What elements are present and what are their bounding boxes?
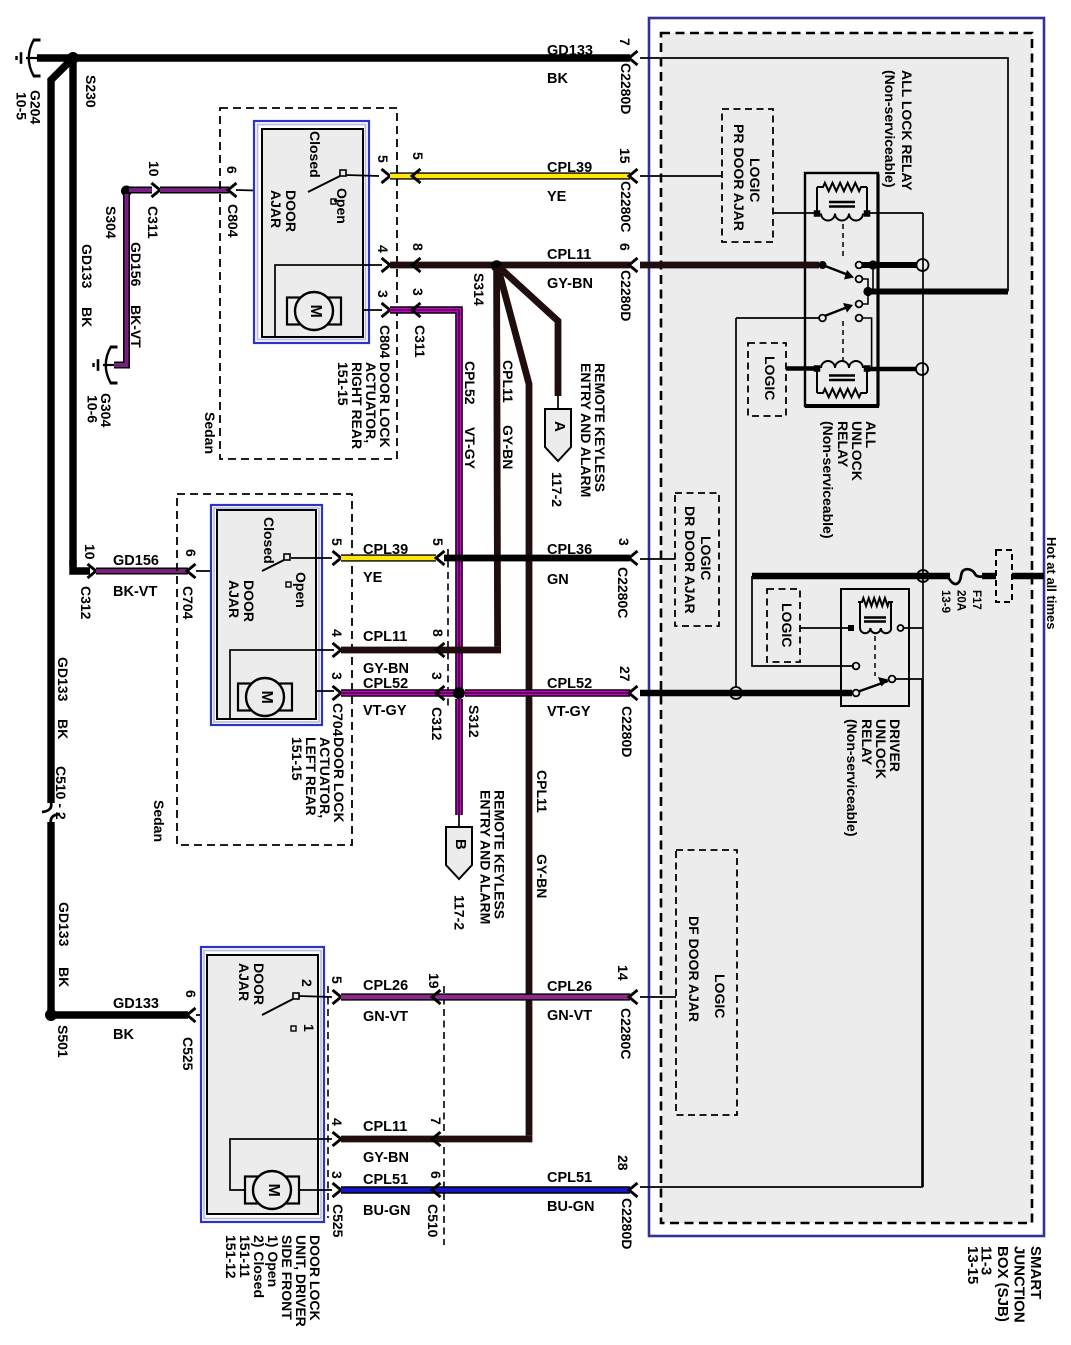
svg-text:DF DOOR AJAR: DF DOOR AJAR [686, 916, 702, 1022]
right-rear sedan boundary (dashed box) [220, 108, 397, 459]
svg-text:DOOR: DOOR [241, 580, 257, 622]
svg-text:S501: S501 [55, 1025, 71, 1058]
svg-text:C2280D: C2280D [619, 1198, 635, 1249]
wire CPL11 GY-BN (C704 to S314 corner) [341, 647, 501, 654]
svg-text:BK: BK [79, 307, 95, 327]
connector C510 pin 7 arrow [432, 1132, 441, 1146]
ground G304 [94, 347, 118, 384]
fuse holder dashed box [996, 550, 1012, 602]
connector C804 pin 6 arrow [228, 183, 237, 197]
svg-text:C2280D: C2280D [618, 63, 634, 114]
motor wiring loop (right rear) [275, 265, 363, 337]
svg-text:YE: YE [547, 189, 567, 205]
svg-text:S314: S314 [471, 273, 487, 306]
wire CPL52 VT-GY (S312 to C2280D) [465, 689, 630, 697]
svg-text:CPL39: CPL39 [547, 160, 592, 176]
connector C804 pin 4 arrow [382, 258, 391, 272]
svg-text:CPL52: CPL52 [547, 676, 592, 692]
svg-text:C2280D: C2280D [618, 270, 634, 321]
motor wiring loop (front) [230, 1139, 332, 1190]
wire GD133 BK vertical branch right (S230 down to C312) [69, 62, 76, 566]
wire GD156 BK-VT (S304 to C311-10) [129, 187, 152, 194]
motor wiring loop (left rear) [230, 650, 316, 719]
connector C704 pin 6 arrow [187, 564, 196, 578]
svg-text:(Non-serviceable): (Non-serviceable) [820, 421, 836, 538]
wire GD156 BK-VT (S304 down to G304) [114, 194, 127, 365]
link all-lock output to ground rail [872, 265, 874, 292]
terminal circle on CPL52 (internal) [730, 687, 742, 699]
svg-text:C525: C525 [180, 1037, 196, 1071]
switch open contact (right rear) [331, 199, 336, 204]
svg-text:CPL52: CPL52 [462, 361, 478, 405]
driver relay common contact [853, 690, 860, 697]
switch open contact (front) [291, 1026, 296, 1031]
switch blade (front) [262, 999, 293, 1015]
all lock relay common contact [819, 261, 827, 269]
LOGIC box (all unlock) [748, 343, 786, 416]
svg-text:GY-BN: GY-BN [363, 1150, 409, 1166]
svg-text:1: 1 [301, 1024, 317, 1032]
wire GD133 BK vertical branch left (S230 down to S501) [51, 61, 70, 803]
all unlock relay common contact [819, 315, 826, 322]
terminal circle (all unlock output) [916, 363, 928, 375]
svg-text:5: 5 [329, 538, 345, 546]
wire to right-rear door-ajar switch [236, 190, 308, 192]
all lock relay coil [816, 187, 818, 213]
wire to front door-ajar switch [196, 1014, 262, 1016]
link NC2 to all-unlock coil output [862, 318, 872, 369]
svg-text:10-5: 10-5 [14, 92, 30, 120]
svg-text:GY-BN: GY-BN [363, 661, 409, 677]
svg-text:A: A [551, 421, 568, 432]
svg-text:GD133: GD133 [56, 902, 72, 947]
wire CPL51 inside SJB [640, 679, 922, 1187]
svg-text:BK-VT: BK-VT [113, 584, 157, 600]
LOGIC DF DOOR AJAR box [676, 850, 737, 1115]
svg-text:C510 - 2: C510 - 2 [53, 766, 69, 820]
all lock relay contact NO [856, 262, 863, 269]
svg-text:C2280C: C2280C [615, 567, 631, 618]
all lock / all unlock relay enclosure [805, 173, 878, 406]
connector C312 pin 10 arrow [88, 564, 97, 578]
SJB internal bus vertical [922, 213, 924, 1187]
svg-text:151-15: 151-15 [335, 362, 351, 406]
svg-text:15: 15 [617, 148, 633, 164]
svg-text:CPL11: CPL11 [547, 247, 591, 263]
driver unlock relay box [841, 589, 909, 706]
svg-text:GD133: GD133 [55, 657, 71, 702]
SJB internal module area (gray dashed box) [661, 33, 1032, 1223]
svg-text:13-9: 13-9 [939, 590, 951, 613]
all lock relay blade [823, 265, 852, 276]
all lock relay output wire [862, 262, 917, 268]
svg-text:4: 4 [329, 629, 345, 637]
svg-text:5: 5 [430, 538, 446, 546]
svg-text:ALL LOCK RELAY: ALL LOCK RELAY [899, 70, 915, 191]
svg-text:CPL11: CPL11 [363, 1119, 407, 1135]
svg-text:14: 14 [615, 965, 631, 981]
svg-text:GY-BN: GY-BN [547, 276, 593, 292]
svg-text:M: M [307, 305, 324, 318]
svg-text:C804: C804 [225, 204, 241, 238]
svg-text:6: 6 [617, 243, 633, 251]
svg-text:151-12: 151-12 [223, 1235, 239, 1279]
svg-text:GN: GN [547, 572, 569, 588]
wire CPL36 into LOGIC DR DOOR AJAR [640, 558, 675, 560]
splice S230 [67, 52, 79, 64]
svg-text:10: 10 [146, 161, 162, 177]
svg-text:10: 10 [82, 544, 98, 560]
fuse F17 element [948, 569, 982, 584]
svg-text:10-6: 10-6 [85, 395, 101, 423]
svg-text:13-15: 13-15 [964, 1246, 981, 1284]
wire LOGIC to all-unlock coil [786, 366, 817, 371]
connector C312 pin 3 arrow [436, 686, 445, 700]
svg-text:LOGIC: LOGIC [762, 356, 778, 400]
svg-text:8: 8 [430, 629, 446, 637]
connector C311 pin 8 arrow [412, 258, 421, 272]
ground G204 [17, 40, 41, 77]
svg-text:5: 5 [329, 976, 345, 984]
svg-text:4: 4 [375, 245, 391, 253]
svg-text:PR DOOR AJAR: PR DOOR AJAR [731, 124, 747, 231]
svg-text:S304: S304 [103, 206, 119, 239]
connector C704 pin 5 arrow [333, 551, 342, 565]
svg-text:5: 5 [375, 155, 391, 163]
svg-text:GD156: GD156 [113, 553, 159, 569]
RKE arrow A [545, 409, 571, 461]
connector C804 pin 3 arrow [382, 303, 391, 317]
wire CPL39 switch to C804-5 [346, 175, 379, 176]
svg-text:GD156: GD156 [128, 242, 144, 287]
wire LOGIC PR to all-lock coil [773, 212, 817, 214]
all unlock relay coil dashed link [842, 321, 844, 362]
connector C525 pin 5 arrow [333, 990, 342, 1004]
wire CPL26 switch to C525-5 [299, 996, 332, 997]
wire LOGIC to driver coil [800, 627, 849, 629]
connector C311 pin 5 arrow [412, 169, 421, 183]
svg-text:BK: BK [113, 1027, 134, 1043]
svg-text:BOX (SJB): BOX (SJB) [994, 1246, 1011, 1322]
driver relay NC stub contact [853, 663, 860, 670]
svg-text:Hot at all times: Hot at all times [1044, 537, 1059, 629]
svg-text:Sedan: Sedan [151, 800, 167, 842]
svg-text:19: 19 [426, 973, 442, 989]
all unlock relay coil [816, 369, 818, 394]
all unlock relay contact NO [856, 301, 863, 308]
svg-text:LOGIC: LOGIC [747, 158, 763, 202]
svg-text:S312: S312 [466, 705, 482, 738]
LOGIC box (driver unlock) [767, 589, 800, 662]
all unlock relay contact NC [856, 315, 863, 322]
door lock unit driver side front (blue box) [201, 947, 324, 1222]
connector C312 pin 5 arrow [436, 551, 445, 565]
wire CPL39 YE (C804 to C2280C) [390, 172, 630, 179]
svg-text:5: 5 [410, 152, 426, 160]
svg-text:3: 3 [616, 538, 632, 546]
wire CPL52 VT-GY (C804 to S312 corner) [390, 310, 459, 690]
svg-text:Open: Open [334, 188, 350, 224]
svg-text:C311: C311 [412, 325, 428, 358]
svg-text:C311: C311 [145, 206, 161, 239]
svg-text:117-2: 117-2 [549, 472, 565, 507]
wire GD133 BK (G204 to C2280D-7) [37, 54, 630, 62]
svg-text:C704: C704 [330, 703, 346, 737]
svg-text:CPL51: CPL51 [547, 1170, 592, 1186]
wire driver coil to power circle [903, 627, 923, 629]
driver relay NO contact [889, 676, 896, 683]
svg-text:SMART: SMART [1027, 1246, 1044, 1299]
svg-text:RELAY: RELAY [835, 421, 851, 468]
wire GD133 inside SJB to relay ground rail [640, 58, 1008, 292]
door lock actuator right rear (blue box) [254, 121, 369, 343]
wire CPL11 GY-BN (S314 diagonal to front door run) [498, 268, 529, 1136]
svg-text:BU-GN: BU-GN [363, 1203, 411, 1219]
power feed line (hot at all times) [752, 573, 950, 579]
svg-text:27: 27 [617, 666, 633, 682]
splice S314 [491, 260, 502, 271]
svg-text:GD133: GD133 [547, 43, 593, 59]
svg-text:VT-GY: VT-GY [547, 704, 591, 720]
svg-text:C510: C510 [425, 1204, 441, 1238]
svg-text:GY-BN: GY-BN [534, 854, 550, 898]
svg-text:GD133: GD133 [113, 996, 159, 1012]
svg-text:C804: C804 [377, 325, 393, 359]
LOGIC PR DOOR AJAR box [722, 109, 773, 242]
wire CPL11 GY-BN (C525 to corner) [341, 1136, 532, 1143]
svg-text:(Non-serviceable): (Non-serviceable) [882, 70, 898, 187]
all lock relay coil dashed link [842, 224, 844, 260]
svg-text:6: 6 [224, 166, 240, 174]
svg-text:GD133: GD133 [79, 244, 95, 289]
wire to left-rear door-ajar switch [196, 570, 262, 572]
svg-text:6: 6 [183, 549, 199, 557]
door lock actuator left rear (blue box) [211, 505, 322, 725]
svg-text:(Non-serviceable): (Non-serviceable) [844, 719, 860, 836]
wire CPL52 VT-GY (S312 down to RKE B) [455, 699, 463, 815]
svg-text:M: M [258, 691, 275, 704]
svg-text:GN-VT: GN-VT [363, 1009, 408, 1025]
svg-text:B: B [452, 839, 469, 850]
svg-text:CPL52: CPL52 [363, 676, 408, 692]
svg-text:BU-GN: BU-GN [547, 1199, 595, 1215]
wire GD133 corner into C312-10 [73, 560, 90, 571]
power branch to driver relay NC stub [752, 576, 854, 666]
svg-text:S230: S230 [83, 75, 99, 108]
power feed after fuse [982, 573, 996, 579]
splice S304 [121, 186, 132, 197]
svg-text:BK: BK [56, 967, 72, 987]
svg-text:GY-BN: GY-BN [500, 425, 516, 469]
svg-text:AJAR: AJAR [226, 580, 242, 618]
svg-text:Closed: Closed [261, 517, 277, 564]
svg-text:CPL26: CPL26 [547, 979, 592, 995]
svg-text:28: 28 [615, 1155, 631, 1171]
svg-text:AJAR: AJAR [268, 190, 284, 228]
svg-text:3: 3 [375, 290, 391, 298]
svg-text:AJAR: AJAR [236, 963, 252, 1001]
wire CPL11 GY-BN (C804 to C2280D) [390, 262, 630, 269]
svg-text:CPL26: CPL26 [363, 978, 408, 994]
wire CPL11 GY-BN (S314 to RKE arrow A) [499, 267, 558, 396]
driver unlock relay coil [859, 602, 861, 628]
svg-text:3: 3 [429, 672, 445, 680]
svg-text:DOOR: DOOR [283, 190, 299, 232]
door lock motor M (front) [245, 1177, 299, 1204]
svg-text:CPL11: CPL11 [500, 360, 516, 403]
wire GD133 BK (C510 to S501) [47, 822, 54, 1012]
svg-text:3: 3 [329, 672, 345, 680]
svg-text:Sedan: Sedan [202, 412, 218, 454]
svg-text:CPL11: CPL11 [534, 770, 550, 813]
svg-text:JUNCTION: JUNCTION [1011, 1246, 1028, 1323]
svg-text:M: M [265, 1184, 282, 1197]
link NC1 to ground rail [862, 279, 868, 292]
svg-text:VT-GY: VT-GY [363, 703, 407, 719]
svg-text:4: 4 [329, 1118, 345, 1126]
RKE arrow B [446, 827, 472, 879]
svg-text:VT-GY: VT-GY [462, 427, 478, 470]
svg-text:117-2: 117-2 [452, 895, 468, 930]
svg-text:LOGIC: LOGIC [779, 603, 795, 647]
svg-text:C312: C312 [429, 707, 445, 741]
connector C510 pin 19 arrow [432, 990, 441, 1004]
power feed to hot-at-all-times [1012, 573, 1044, 579]
svg-text:151-15: 151-15 [289, 737, 305, 781]
inline connector C510-2 break [42, 802, 51, 812]
svg-text:20A: 20A [955, 590, 967, 611]
connector C510 dashed line [443, 986, 445, 1245]
connector C311 pin 10 arrow [152, 183, 161, 197]
svg-text:C2280C: C2280C [618, 1008, 634, 1059]
switch open contact (left rear) [286, 582, 291, 587]
svg-text:C312: C312 [78, 586, 94, 620]
wire CPL39 into LOGIC PR DOOR AJAR [640, 175, 722, 177]
connector C312 dashed line [447, 549, 449, 710]
svg-text:C2280D: C2280D [619, 706, 635, 757]
svg-text:6: 6 [183, 990, 199, 998]
svg-text:ENTRY AND ALARM: ENTRY AND ALARM [578, 363, 594, 497]
svg-text:LOGIC: LOGIC [698, 536, 714, 580]
svg-text:CPL51: CPL51 [363, 1172, 408, 1188]
junction dot on all-lock output [868, 260, 877, 269]
wire CPL36 GN (C312 to C2280C) [444, 555, 630, 562]
door lock motor M (right rear) [287, 298, 341, 325]
wire CPL52 riser to all-unlock common [735, 318, 737, 687]
relay ground rail (to GD133) [866, 289, 1008, 295]
connector C312 pin 8 arrow [436, 643, 445, 657]
wire CPL39 switch to C704-5 [291, 557, 332, 559]
splice S312 [453, 687, 465, 699]
door lock motor M (left rear) [238, 684, 292, 711]
wire CPL52 VT-GY (C704 to S312) [341, 689, 459, 697]
driver relay blade [859, 681, 889, 692]
terminal circle on power feed [917, 570, 929, 582]
wire CPL11 GY-BN inside SJB to all-lock common [640, 262, 819, 269]
svg-text:DOOR: DOOR [251, 963, 267, 1005]
svg-text:GN-VT: GN-VT [547, 1008, 592, 1024]
switch closed contact (right rear) [340, 170, 346, 176]
svg-text:6: 6 [428, 1171, 444, 1179]
smart junction box (SJB) outline [649, 18, 1044, 1236]
wire CPL39 YE (C704 to C312) [341, 554, 436, 561]
svg-text:CPL11: CPL11 [363, 629, 407, 645]
svg-text:LOGIC: LOGIC [712, 974, 728, 1018]
svg-text:3: 3 [329, 1171, 345, 1179]
svg-text:C2280C: C2280C [618, 181, 634, 232]
connector C525 pin 3 arrow [333, 1183, 342, 1197]
wire CPL52 inside SJB [640, 690, 852, 696]
connector C311 pin 3 arrow [412, 303, 421, 317]
svg-text:BK: BK [547, 71, 568, 87]
wire CPL26 GN-VT (C525 to C2280C) [341, 993, 630, 1000]
LOGIC DR DOOR AJAR box [675, 493, 719, 626]
svg-text:Closed: Closed [307, 131, 323, 178]
svg-text:F17: F17 [970, 590, 982, 610]
connector C704 pin 3 arrow [333, 686, 342, 700]
svg-text:8: 8 [410, 243, 426, 251]
wire CPL52 branch to all-unlock common [736, 317, 819, 319]
connector C525 dashed line [327, 986, 329, 1218]
connector C704 pin 4 arrow [333, 643, 342, 657]
wire CPL11 GY-BN (S314 down to left-rear) [497, 268, 498, 647]
svg-text:BK: BK [55, 719, 71, 739]
connector C510 pin 6 arrow [432, 1183, 441, 1197]
svg-text:BK-VT: BK-VT [128, 305, 144, 348]
driver relay NO output [895, 678, 922, 680]
connector C804 pin 5 arrow [382, 169, 391, 183]
svg-text:Open: Open [293, 572, 309, 608]
switch blade (left rear) [262, 560, 284, 571]
wire GD133 BK (S501 to C525-6) [55, 1011, 188, 1018]
svg-text:YE: YE [363, 570, 383, 586]
svg-text:C525: C525 [330, 1204, 346, 1238]
all unlock relay blade [825, 307, 850, 317]
svg-text:RELAY: RELAY [859, 719, 875, 766]
wire GD156 BK-VT (C311 to C804) [160, 187, 229, 194]
wire CPL26 into LOGIC DF DOOR AJAR [640, 996, 676, 998]
wire CPL51 BU-GN (C525 to C2280D) [341, 1186, 630, 1193]
connector C525 pin 6 arrow [187, 1008, 196, 1022]
connector C525 pin 4 arrow [333, 1132, 342, 1146]
svg-text:7: 7 [617, 38, 633, 46]
svg-text:ENTRY AND ALARM: ENTRY AND ALARM [478, 790, 494, 924]
svg-text:3: 3 [410, 288, 426, 296]
wire all-unlock coil output [865, 367, 916, 372]
all lock relay contact NC [856, 276, 863, 283]
svg-text:CPL39: CPL39 [363, 542, 408, 558]
switch closed contact (front) [293, 993, 299, 999]
terminal circle (all lock output) [917, 259, 929, 271]
left-rear sedan boundary (dashed box) [177, 494, 352, 845]
svg-text:2: 2 [299, 979, 315, 987]
svg-text:C704: C704 [180, 586, 196, 620]
driver relay coil dashed link [874, 636, 876, 676]
svg-text:CPL36: CPL36 [547, 542, 592, 558]
splice S501 [45, 1009, 57, 1021]
svg-text:7: 7 [428, 1117, 444, 1125]
wire all-lock coil to internal bus [865, 212, 923, 214]
switch closed contact (left rear) [284, 554, 290, 560]
wire GD156 BK-VT (C312 to C704) [96, 568, 188, 575]
svg-text:DR DOOR AJAR: DR DOOR AJAR [682, 506, 698, 614]
link NO2 to ground rail [862, 292, 868, 305]
switch blade (right rear) [308, 176, 340, 192]
